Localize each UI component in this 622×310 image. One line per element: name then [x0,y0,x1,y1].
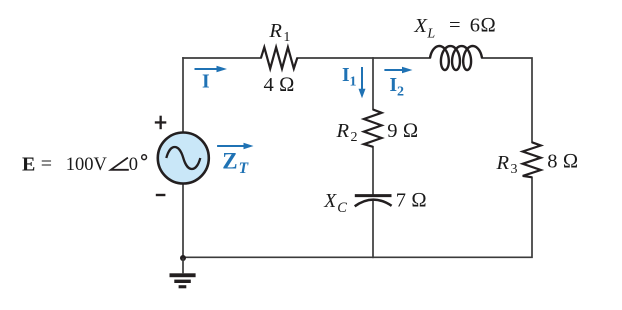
svg-text:8 Ω: 8 Ω [547,150,578,172]
svg-text:R: R [268,20,282,42]
svg-text:1: 1 [350,75,357,90]
svg-text:1: 1 [283,30,290,45]
svg-text:T: T [239,160,249,177]
svg-text:6: 6 [470,15,480,37]
svg-text:R: R [336,120,350,142]
svg-text:C: C [337,200,347,216]
svg-text:=: = [41,153,52,175]
svg-text:4 Ω: 4 Ω [264,74,295,96]
svg-text:Ω: Ω [480,15,496,37]
svg-text:9 Ω: 9 Ω [387,120,418,142]
svg-text:7 Ω: 7 Ω [396,190,427,212]
svg-text:Z: Z [222,149,237,174]
svg-text:0: 0 [129,155,138,175]
svg-text:2: 2 [397,85,404,100]
svg-text:=: = [449,15,461,37]
svg-text:100V: 100V [66,155,108,175]
svg-text:2: 2 [351,130,358,145]
svg-text:E: E [22,153,35,175]
svg-text:X: X [323,191,337,212]
svg-text:I: I [342,65,350,86]
svg-text:3: 3 [511,162,518,177]
svg-text:I: I [390,75,398,96]
svg-text:I: I [202,71,210,92]
svg-text:L: L [426,26,435,41]
svg-text:X: X [413,15,428,37]
svg-text:R: R [496,152,510,174]
